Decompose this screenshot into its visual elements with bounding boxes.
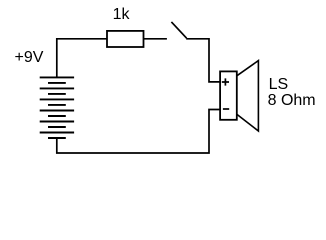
- cell plate long: [40, 76, 74, 78]
- plus terminal mark: [222, 78, 229, 85]
- label 8 Ohm: [268, 92, 316, 110]
- cell plate short: [48, 126, 66, 128]
- label +9V: [15, 49, 44, 67]
- minus terminal mark: [223, 108, 229, 110]
- cell plate long: [40, 132, 74, 134]
- cell plate short: [48, 82, 66, 84]
- battery B1 6-cell stack: [40, 77, 74, 138]
- speaker cone: [237, 61, 259, 131]
- wire switch to speaker plus terminal: [186, 39, 220, 82]
- cell plate long: [40, 98, 74, 100]
- wire speaker minus down and left to battery minus: [57, 110, 220, 154]
- wire battery plus up and right to resistor: [57, 39, 107, 78]
- label 1k: [113, 6, 130, 24]
- cell plate short: [48, 137, 66, 139]
- cell plate short: [48, 93, 66, 95]
- cell plate long: [40, 87, 74, 89]
- cell plate long: [40, 110, 74, 112]
- label LS: [269, 76, 289, 94]
- cell plate short: [48, 115, 66, 117]
- switch S1 open lever: [171, 22, 186, 38]
- speaker LS box: [220, 71, 237, 119]
- cell plate short: [48, 104, 66, 106]
- wire resistor to switch contact: [144, 38, 167, 40]
- cell plate long: [40, 121, 74, 123]
- resistor R1 body 1k: [107, 31, 144, 47]
